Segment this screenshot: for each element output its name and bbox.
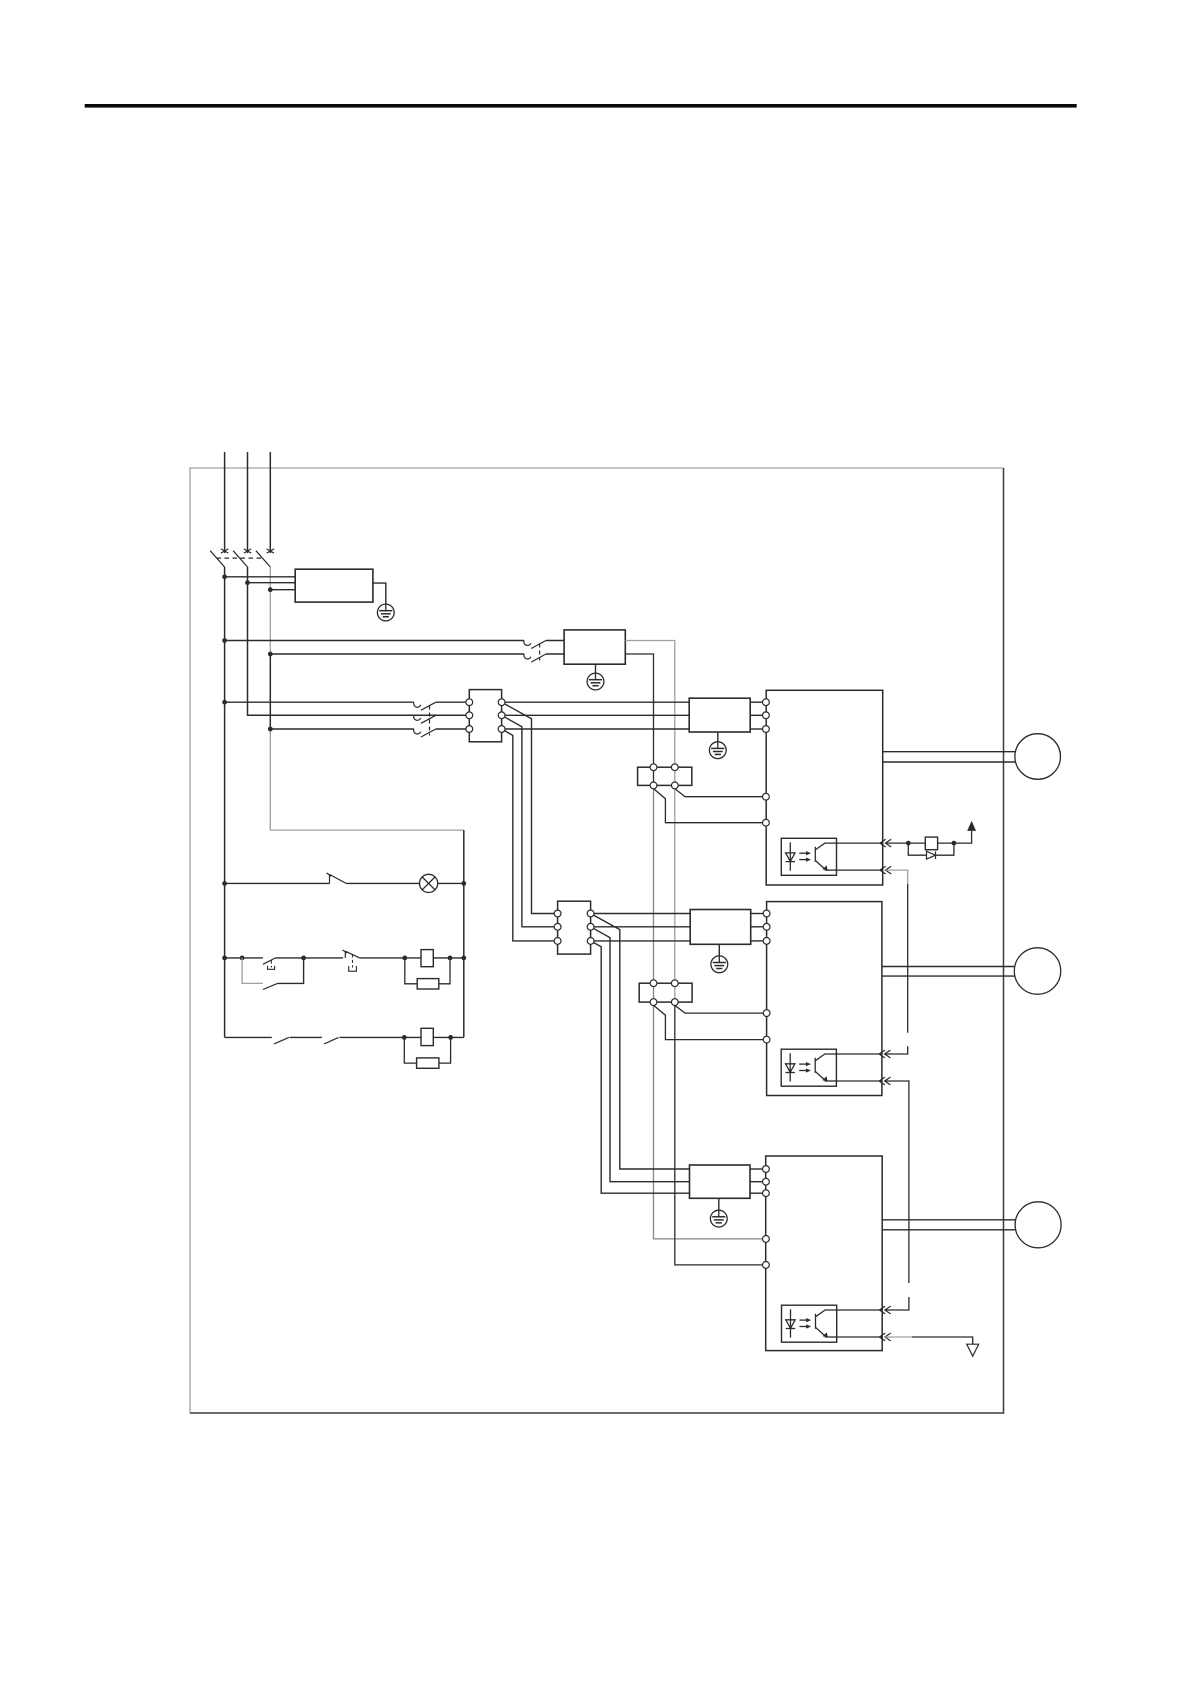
terminal TB2 R3 bbox=[587, 938, 594, 945]
wire PC1 bottom to edge bbox=[837, 869, 883, 871]
servopack SP3 bbox=[766, 1156, 883, 1351]
noise filter FIL3 bbox=[690, 1165, 751, 1198]
wire control power line B lower (dark) bbox=[675, 1002, 763, 1265]
wire cascade SP1 to SP2 (solid run) bbox=[907, 884, 909, 1033]
terminal SP1 L2C bbox=[763, 819, 770, 826]
wire main switch feed R bbox=[225, 701, 414, 703]
terminal TB1 R1 bbox=[498, 699, 505, 706]
wire FIL0 earth lead bbox=[373, 583, 386, 604]
node filter tap T bbox=[268, 587, 273, 592]
terminal CB2 top A bbox=[650, 980, 657, 987]
wire lamp rung left bbox=[225, 882, 330, 884]
terminal SP3 L3 bbox=[763, 1190, 770, 1197]
main power switch pole 3 bbox=[414, 729, 436, 737]
node main switch tap T bbox=[268, 727, 273, 732]
ground supply box bbox=[587, 673, 604, 690]
wire phase S bus bbox=[248, 567, 470, 715]
node lamp rung right bbox=[461, 881, 466, 886]
pin arrow SP1 ALM- bbox=[880, 866, 891, 874]
wire CB1 tap B to servopack 1 bbox=[675, 789, 763, 797]
power supply +24V arrow bbox=[967, 821, 976, 831]
node lamp rung left bbox=[222, 881, 227, 886]
wire phase R bus bbox=[224, 567, 226, 1037]
wire TB1 daisy drop 1 bbox=[502, 702, 558, 913]
servopack SP2 bbox=[767, 902, 882, 1096]
wire PC3 bottom to edge bbox=[837, 1336, 883, 1338]
surge absorber SA2 bbox=[417, 1058, 439, 1068]
relay coil K1 bbox=[925, 837, 937, 850]
wire into contactor box 2 bbox=[546, 653, 564, 655]
circuit breaker QF linkage (dashed) bbox=[217, 557, 264, 559]
node rung2 left rail bbox=[222, 956, 227, 961]
node rung3 coil right bbox=[448, 1035, 453, 1040]
pin arrow SP1 ALM+ bbox=[880, 839, 891, 847]
terminal SP3 L1 bbox=[763, 1166, 770, 1173]
signal ground 0V bbox=[967, 1344, 979, 1356]
wire rung2 seg4 bbox=[433, 957, 464, 959]
wire holding loop right bbox=[278, 958, 304, 984]
wire TB2 to FIL2 line3 bbox=[591, 940, 691, 942]
wire FIL1 out 1 bbox=[750, 701, 763, 703]
switch lamp rung bbox=[327, 873, 347, 884]
terminal SP1 L1C bbox=[763, 793, 770, 800]
wire diode bypass loop bbox=[908, 843, 954, 855]
node filter tap S bbox=[245, 580, 250, 585]
pin arrow SP3 ALM- bbox=[879, 1333, 890, 1341]
wire into contactor box 1 bbox=[546, 640, 564, 642]
terminal CB1 bottom A bbox=[650, 782, 657, 789]
wire FIL2 earth stub bbox=[718, 944, 720, 956]
wire TB1 daisy drop 2 bbox=[502, 715, 558, 927]
contact 1Ry pole 2 bbox=[524, 654, 546, 662]
wire FIL2 out 1 bbox=[751, 913, 764, 915]
wire lamp rung right bbox=[438, 882, 464, 884]
wire FIL1 out 3 bbox=[750, 728, 763, 730]
pushbutton PB start blade bbox=[263, 958, 276, 964]
wire filter tap R bbox=[225, 576, 296, 578]
wire supply box earth stub bbox=[595, 664, 597, 673]
photocoupler PC2 bbox=[781, 1049, 836, 1086]
surge absorber SA1 bbox=[417, 979, 439, 989]
pushbutton PB stop operator (dashed) bbox=[349, 955, 357, 972]
terminal SP3 L1C bbox=[763, 1236, 770, 1243]
diode D1 bbox=[927, 851, 936, 859]
wire TB2 daisy drop 1 bbox=[591, 914, 690, 1170]
wire relay K1 to +24V bbox=[938, 831, 972, 843]
terminal SP1 L2 bbox=[763, 712, 770, 719]
wire cascade SP1 to SP2 (dash end) bbox=[885, 1046, 908, 1054]
pushbutton PB stop bbox=[343, 950, 360, 958]
relay coil 2Ry bbox=[421, 1028, 433, 1045]
node contactor tap T bbox=[268, 652, 273, 657]
terminal SP1 L3 bbox=[763, 726, 770, 733]
motor M3 bbox=[1015, 1202, 1061, 1248]
node rung2 coil left bbox=[402, 956, 407, 961]
wire CB2 tap A to servopack 2 bbox=[654, 1005, 764, 1039]
wire CB1 tap A to servopack 1 bbox=[654, 789, 763, 823]
wire rung2 seg2 bbox=[275, 957, 343, 959]
wire contactor feed T bbox=[270, 653, 524, 655]
wire holding loop left (gray) bbox=[242, 958, 263, 984]
wire FIL3 earth stub bbox=[718, 1198, 720, 1210]
wire cascade SP2 to SP3 (dash end) bbox=[885, 1297, 909, 1310]
wire switch to TB1 pole3 bbox=[436, 728, 470, 730]
relay coil 1Ry bbox=[421, 950, 433, 967]
node rung3 coil left bbox=[402, 1035, 407, 1040]
terminal CB1 top B bbox=[671, 764, 678, 771]
wire control power line A upper (dark) bbox=[625, 654, 653, 788]
circuit breaker QF pole 3 bbox=[256, 549, 274, 567]
indicator lamp bbox=[420, 874, 438, 892]
pin arrow SP2 ALM- bbox=[879, 1077, 890, 1085]
terminal TB1 L1 bbox=[466, 699, 473, 706]
terminal CB1 bottom B bbox=[671, 782, 678, 789]
terminal SP2 L1C bbox=[763, 1010, 770, 1017]
wire filter tap S bbox=[248, 582, 296, 584]
terminal block TB2 bbox=[558, 901, 591, 954]
wire TB1 to FIL1 line3 bbox=[502, 728, 690, 730]
motor M3 cable bbox=[882, 1220, 1015, 1230]
wire phase S supply drop bbox=[247, 452, 249, 553]
terminal SP2 L1 bbox=[763, 910, 770, 917]
circuit breaker QF pole 2 bbox=[233, 549, 251, 567]
wire arrow to relay K1 bbox=[886, 842, 926, 844]
terminal SP2 L3 bbox=[763, 938, 770, 945]
contact 1Ry linkage (dashed) bbox=[539, 644, 541, 661]
wire lamp rung middle bbox=[346, 882, 419, 884]
node relay K1 left bbox=[906, 841, 911, 846]
wire TB1 daisy drop 3 bbox=[502, 729, 558, 941]
node main switch tap R bbox=[222, 700, 227, 705]
wire filter tap T bbox=[270, 589, 295, 591]
terminal CB2 bottom A bbox=[650, 999, 657, 1006]
terminal TB2 L1 bbox=[554, 910, 561, 917]
enclosure panel boundary bbox=[190, 468, 1004, 1413]
control power supply box bbox=[564, 630, 625, 664]
wire TB1 to FIL1 line2 bbox=[502, 714, 690, 716]
terminal TB1 L3 bbox=[466, 726, 473, 733]
wire FIL1 earth stub bbox=[717, 732, 719, 742]
terminal SP3 L2C bbox=[763, 1262, 770, 1269]
contact rung3 A blade bbox=[274, 1037, 289, 1044]
contact rung3 B blade bbox=[324, 1037, 339, 1044]
terminal CB2 top B bbox=[671, 980, 678, 987]
wire PC1 top to edge bbox=[837, 842, 883, 844]
wire FIL3 out 1 bbox=[750, 1168, 763, 1170]
noise filter FIL1 bbox=[689, 698, 750, 732]
wire rung2 seg1 bbox=[225, 957, 263, 959]
wire contactor feed R bbox=[225, 640, 524, 642]
terminal SP1 L1 bbox=[763, 699, 770, 706]
main power switch linkage (dashed) bbox=[429, 706, 431, 736]
terminal TB1 R3 bbox=[498, 726, 505, 733]
wire FIL3 out 3 bbox=[750, 1192, 763, 1194]
terminal TB1 L2 bbox=[466, 712, 473, 719]
terminal SP3 L2 bbox=[763, 1178, 770, 1185]
wire surge loop 2 bbox=[404, 1037, 450, 1063]
wire phase T to control rail (gray) bbox=[270, 729, 464, 830]
terminal SP2 L2 bbox=[763, 923, 770, 930]
node filter tap R bbox=[222, 574, 227, 579]
wire PC3 top to edge bbox=[837, 1309, 883, 1311]
wire FIL3 out 2 bbox=[750, 1181, 763, 1183]
terminal block TB1 bbox=[469, 690, 501, 742]
node rung2 loop right bbox=[301, 956, 306, 961]
node relay K1 right bbox=[952, 841, 957, 846]
node contactor tap R bbox=[222, 638, 227, 643]
photocoupler PC3 bbox=[782, 1305, 837, 1342]
motor M2 bbox=[1014, 948, 1060, 994]
wire TB2 to FIL2 line1 bbox=[591, 913, 691, 915]
noise filter FIL2 bbox=[690, 910, 751, 945]
wire FIL2 out 2 bbox=[751, 926, 764, 928]
ground FIL3 bbox=[710, 1210, 727, 1227]
wire main switch feed T bbox=[270, 728, 414, 730]
header rule bbox=[85, 104, 1077, 108]
pushbutton PB start operator (dashed) bbox=[268, 961, 275, 970]
wire rung3 seg2 bbox=[290, 1036, 322, 1038]
node rung2 coil right bbox=[448, 956, 453, 961]
wire control power line B upper (gray) bbox=[625, 641, 675, 1003]
photocoupler PC1 bbox=[781, 838, 836, 875]
node rung2 branch bbox=[240, 956, 245, 961]
terminal CB2 bottom B bbox=[671, 999, 678, 1006]
main power switch pole 2 bbox=[414, 715, 436, 723]
terminal block CB1 (control power) bbox=[638, 767, 692, 785]
wire PC2 bottom to edge bbox=[836, 1080, 882, 1082]
wire cascade SP2 to SP3 (solid run) bbox=[885, 1081, 909, 1283]
wire PC2 top to edge bbox=[836, 1053, 882, 1055]
motor M2 cable bbox=[882, 967, 1015, 977]
ground FIL1 bbox=[709, 742, 726, 759]
wire FIL2 out 3 bbox=[751, 940, 764, 942]
motor M1 cable bbox=[883, 752, 1016, 762]
circuit breaker QF pole 1 bbox=[210, 549, 228, 567]
pin arrow SP2 ALM+ bbox=[879, 1050, 890, 1058]
pin arrow SP3 ALM+ bbox=[879, 1306, 890, 1314]
wire TB2 to FIL2 line2 bbox=[591, 926, 691, 928]
wire CB2 tap B to servopack 2 bbox=[675, 1005, 764, 1013]
wire rung3 seg4 bbox=[433, 1036, 464, 1038]
ground FIL0 bbox=[377, 604, 394, 621]
wire switch to TB1 pole2 bbox=[436, 714, 470, 716]
wire rung3 seg1 bbox=[225, 1036, 272, 1038]
wire phase T bus bbox=[269, 567, 271, 653]
wire TB1 to FIL1 line1 bbox=[502, 701, 690, 703]
wire cascade SP1 to SP2 (gray start) bbox=[886, 870, 908, 884]
servopack SP1 bbox=[766, 690, 883, 885]
wire rung2 seg3 bbox=[360, 957, 421, 959]
terminal CB1 top A bbox=[650, 764, 657, 771]
terminal TB2 R2 bbox=[587, 923, 594, 930]
wire switch to TB1 pole1 bbox=[436, 701, 470, 703]
contact 1Ry pole 1 bbox=[524, 641, 546, 649]
wire phase R supply drop bbox=[224, 452, 226, 553]
wire SP3 to signal ground bbox=[912, 1337, 973, 1344]
wire FIL1 out 2 bbox=[750, 714, 763, 716]
node rung2 right rail bbox=[461, 956, 466, 961]
main power switch pole 1 bbox=[414, 702, 436, 710]
motor M1 bbox=[1015, 734, 1061, 780]
ground FIL2 bbox=[711, 956, 728, 973]
wire TB2 daisy drop 2 bbox=[591, 927, 690, 1182]
terminal TB2 R1 bbox=[587, 910, 594, 917]
terminal TB2 L3 bbox=[554, 938, 561, 945]
terminal SP2 L2C bbox=[763, 1036, 770, 1043]
contact 1Ry holding blade bbox=[263, 983, 278, 989]
noise filter FIL0 bbox=[295, 569, 373, 602]
wire SP3 to signal ground (gray lead) bbox=[885, 1336, 912, 1338]
wire rung3 seg3 bbox=[340, 1036, 421, 1038]
wire control right rail bbox=[463, 830, 465, 1037]
wire control power line A lower (gray) bbox=[654, 788, 763, 1239]
wire TB2 daisy drop 3 bbox=[591, 941, 690, 1193]
terminal block CB2 (control power) bbox=[639, 983, 692, 1002]
terminal TB2 L2 bbox=[554, 923, 561, 930]
wire phase T supply drop bbox=[269, 452, 271, 553]
terminal TB1 R2 bbox=[498, 712, 505, 719]
wire surge loop 1 bbox=[405, 958, 450, 984]
